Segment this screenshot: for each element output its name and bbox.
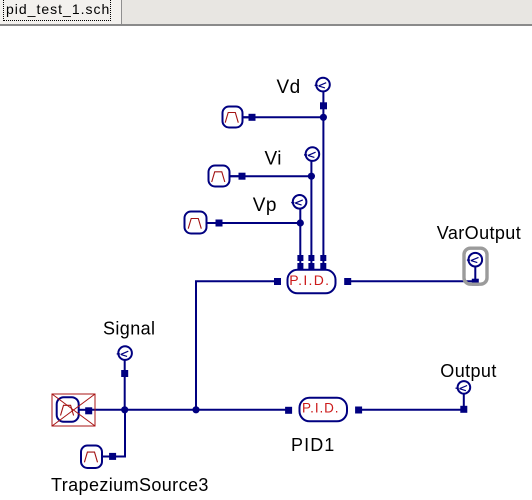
svg-text:P.I.D.: P.I.D. (302, 400, 339, 415)
trapezium source TS1 (Vd row) (223, 107, 250, 128)
svg-text:P.I.D.: P.I.D. (289, 272, 330, 288)
pin square PID1 right (355, 407, 362, 414)
pin square PID right (344, 278, 351, 285)
wire Signal probe stub down to bus (124, 360, 126, 410)
junction Vd net / TS1 (320, 114, 327, 121)
wire PID1 right to Output (359, 409, 464, 411)
pin square TS Vp (216, 220, 223, 227)
svg-text:Vi: Vi (265, 148, 282, 169)
wire VarOutput probe stub (474, 266, 476, 281)
pin square Signal probe (121, 370, 128, 377)
svg-text:VarOutput: VarOutput (437, 223, 521, 243)
trapezium source TS (Vp row) (185, 212, 217, 234)
probe Output (456, 381, 471, 394)
svg-text:Vd: Vd (277, 77, 301, 98)
wire TrapeziumSource3 up to bus (116, 410, 125, 457)
svg-text:Vp: Vp (253, 195, 277, 216)
active tab pid_test_1.sch (0, 0, 122, 24)
pin square selected source (85, 407, 92, 414)
wire bottom bus y=410 (89, 409, 288, 411)
junction bus / PID loop (192, 406, 199, 413)
node square on Vd net (320, 102, 327, 109)
wire TS2 to Vi net y=176 (230, 175, 311, 177)
pin squares on PID top inputs (85, 114, 479, 460)
svg-text:Signal: Signal (103, 319, 155, 339)
probe Signal (117, 346, 132, 360)
pin square TS2 (239, 173, 246, 180)
pin square Output probe (460, 406, 467, 413)
wire TS1 to Vd net y=117 (243, 116, 323, 118)
junction bus / Signal (121, 406, 128, 413)
wire Output probe stub (463, 394, 465, 408)
pin square PID left (274, 278, 281, 285)
trapezium source TrapeziumSource3 (81, 446, 110, 469)
junction Vi net / TS2 (308, 173, 315, 180)
probe Vi (304, 147, 319, 161)
wire vertical Vp net x=300.3 (299, 209, 301, 269)
tab bar (0, 0, 532, 26)
wire TS to Vp net y=223 (207, 222, 300, 224)
op block PID1 (bottom) (300, 398, 348, 422)
trapezium source TS2 (Vi row) (209, 166, 240, 187)
wire vertical Vi net x=311.4 (310, 161, 312, 269)
selection box VarOutput (464, 248, 487, 284)
pin square TrapeziumSource3 (109, 453, 116, 460)
pin square VarOutput probe (472, 279, 479, 286)
wire PID right pin to VarOutput (350, 280, 475, 282)
svg-text:PID1: PID1 (291, 435, 335, 455)
svg-text:TrapeziumSource3: TrapeziumSource3 (51, 475, 209, 495)
probe Vd (315, 78, 330, 92)
wire PID left pin to bend (196, 281, 274, 410)
junction Vp net / TS (297, 219, 304, 226)
probe VarOutput (467, 253, 482, 267)
wire vertical Vd net x=323 (322, 92, 324, 269)
op block PID (top) (288, 270, 336, 294)
pin square TS1 (249, 114, 256, 121)
probe Vp (291, 195, 306, 209)
svg-text:Output: Output (440, 361, 496, 381)
pin square PID1 left (285, 407, 292, 414)
selected source (red crossed box) (52, 394, 95, 426)
